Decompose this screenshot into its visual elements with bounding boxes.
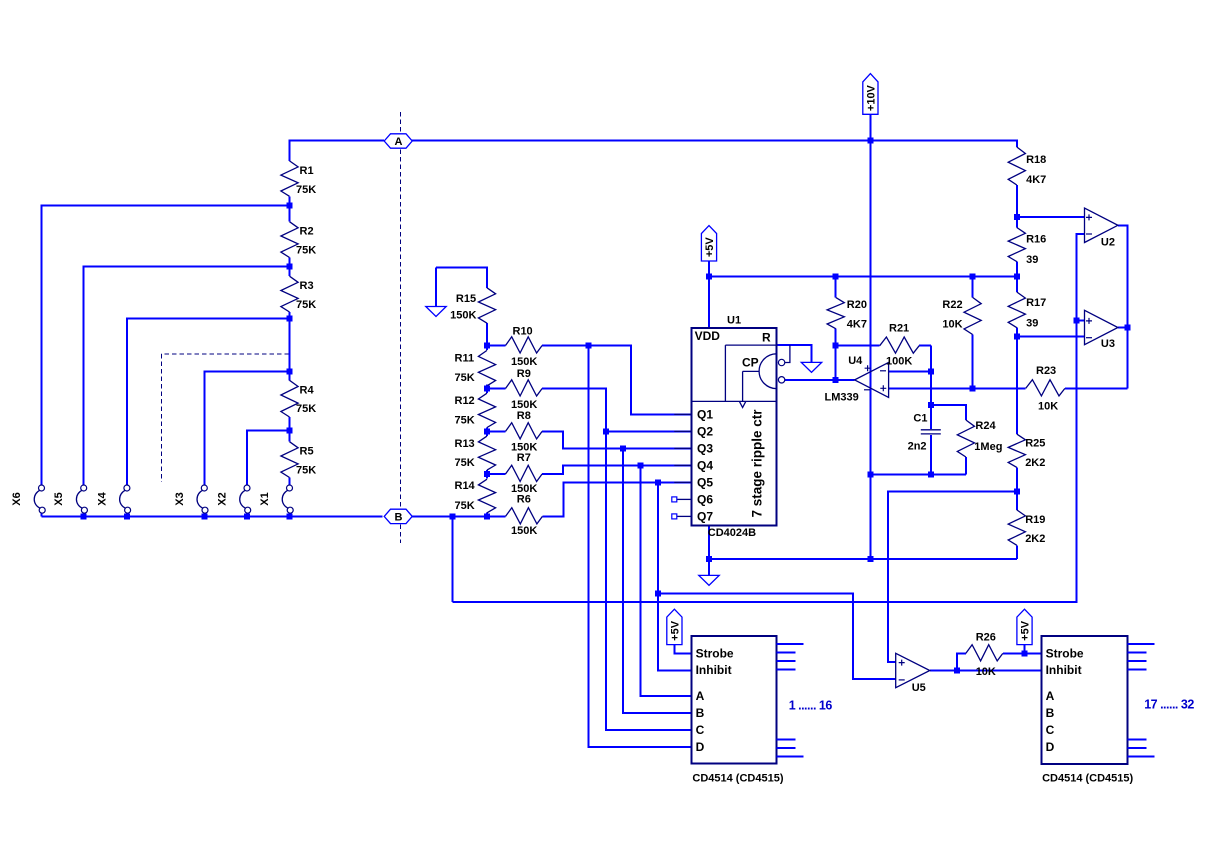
svg-text:Q7: Q7 xyxy=(697,510,713,524)
svg-text:X3: X3 xyxy=(174,492,186,505)
svg-text:R7: R7 xyxy=(517,452,531,464)
svg-text:R26: R26 xyxy=(976,631,996,643)
svg-text:39: 39 xyxy=(1026,254,1038,266)
svg-text:75K: 75K xyxy=(455,500,475,512)
svg-text:R18: R18 xyxy=(1026,154,1046,166)
svg-text:D: D xyxy=(696,740,705,754)
svg-text:D: D xyxy=(1046,740,1055,754)
svg-text:X5: X5 xyxy=(53,492,65,505)
svg-text:U5: U5 xyxy=(912,682,926,694)
svg-text:Q3: Q3 xyxy=(697,442,713,456)
svg-text:Q5: Q5 xyxy=(697,476,713,490)
svg-text:C: C xyxy=(1046,723,1055,737)
svg-text:U2: U2 xyxy=(1101,237,1115,249)
svg-text:1Meg: 1Meg xyxy=(974,441,1002,453)
svg-text:10K: 10K xyxy=(976,666,996,678)
svg-text:+5V: +5V xyxy=(669,620,681,641)
svg-text:X2: X2 xyxy=(217,492,229,505)
svg-text:LM339: LM339 xyxy=(825,392,859,404)
svg-text:+5V: +5V xyxy=(1020,620,1032,641)
svg-text:R9: R9 xyxy=(517,368,531,380)
svg-text:100K: 100K xyxy=(886,356,912,368)
svg-text:75K: 75K xyxy=(296,465,316,477)
svg-text:R1: R1 xyxy=(300,165,314,177)
svg-text:Q1: Q1 xyxy=(697,408,713,422)
svg-text:CD4024B: CD4024B xyxy=(708,527,756,539)
svg-text:X1: X1 xyxy=(259,492,271,505)
svg-text:X6: X6 xyxy=(11,492,23,505)
svg-text:75K: 75K xyxy=(296,245,316,257)
svg-text:B: B xyxy=(1046,706,1055,720)
svg-text:U3: U3 xyxy=(1101,338,1115,350)
svg-text:R21: R21 xyxy=(889,322,909,334)
svg-text:R5: R5 xyxy=(300,446,314,458)
svg-text:R12: R12 xyxy=(455,395,475,407)
svg-text:2K2: 2K2 xyxy=(1025,533,1045,545)
svg-text:U1: U1 xyxy=(727,315,741,327)
svg-text:A: A xyxy=(696,689,705,703)
svg-text:B: B xyxy=(696,706,705,720)
svg-text:150K: 150K xyxy=(450,309,476,321)
svg-text:+5V: +5V xyxy=(704,237,716,258)
svg-text:Q4: Q4 xyxy=(697,459,713,473)
svg-text:4K7: 4K7 xyxy=(847,319,867,331)
svg-text:150K: 150K xyxy=(511,356,537,368)
svg-text:4K7: 4K7 xyxy=(1026,174,1046,186)
svg-text:R25: R25 xyxy=(1025,438,1045,450)
svg-text:10K: 10K xyxy=(1038,401,1058,413)
svg-text:75K: 75K xyxy=(296,403,316,415)
svg-text:CD4514 (CD4515): CD4514 (CD4515) xyxy=(1042,773,1133,785)
svg-text:10K: 10K xyxy=(942,319,962,331)
svg-text:CD4514 (CD4515): CD4514 (CD4515) xyxy=(692,773,783,785)
svg-text:7 stage ripple ctr: 7 stage ripple ctr xyxy=(750,409,765,518)
svg-text:R20: R20 xyxy=(847,299,867,311)
svg-text:R13: R13 xyxy=(455,438,475,450)
svg-text:C: C xyxy=(696,723,705,737)
svg-text:75K: 75K xyxy=(455,372,475,384)
svg-text:A: A xyxy=(1046,689,1055,703)
svg-text:75K: 75K xyxy=(455,457,475,469)
svg-text:R10: R10 xyxy=(513,325,533,337)
svg-text:R14: R14 xyxy=(455,480,476,492)
svg-text:2n2: 2n2 xyxy=(908,440,927,452)
svg-text:75K: 75K xyxy=(455,415,475,427)
svg-text:R2: R2 xyxy=(300,226,314,238)
svg-text:75K: 75K xyxy=(296,299,316,311)
svg-text:Strobe: Strobe xyxy=(1046,647,1084,661)
svg-text:B: B xyxy=(395,511,403,523)
svg-text:X4: X4 xyxy=(96,491,108,505)
svg-text:R3: R3 xyxy=(300,280,314,292)
svg-text:Inhibit: Inhibit xyxy=(696,663,732,677)
svg-text:A: A xyxy=(395,136,403,148)
svg-text:R8: R8 xyxy=(517,410,531,422)
svg-text:1 ...... 16: 1 ...... 16 xyxy=(789,699,833,713)
svg-text:+10V: +10V xyxy=(865,84,877,111)
svg-text:Inhibit: Inhibit xyxy=(1046,663,1082,677)
svg-text:U4: U4 xyxy=(848,355,863,367)
svg-text:CP: CP xyxy=(742,356,759,370)
svg-text:R: R xyxy=(762,331,771,345)
svg-text:C1: C1 xyxy=(913,413,927,425)
svg-text:2K2: 2K2 xyxy=(1025,457,1045,469)
svg-text:150K: 150K xyxy=(511,525,537,537)
svg-text:R23: R23 xyxy=(1036,365,1056,377)
svg-text:VDD: VDD xyxy=(695,329,721,343)
svg-text:R24: R24 xyxy=(975,420,996,432)
svg-text:R16: R16 xyxy=(1026,234,1046,246)
svg-text:R17: R17 xyxy=(1026,297,1046,309)
svg-text:R22: R22 xyxy=(942,299,962,311)
svg-text:17 ...... 32: 17 ...... 32 xyxy=(1144,698,1194,712)
svg-text:R4: R4 xyxy=(300,384,315,396)
svg-text:R11: R11 xyxy=(455,353,475,365)
svg-text:R15: R15 xyxy=(456,293,476,305)
svg-text:39: 39 xyxy=(1026,318,1038,330)
svg-text:75K: 75K xyxy=(296,184,316,196)
svg-text:Strobe: Strobe xyxy=(696,647,734,661)
svg-text:R19: R19 xyxy=(1025,514,1045,526)
svg-text:R6: R6 xyxy=(517,494,531,506)
svg-text:Q2: Q2 xyxy=(697,425,713,439)
svg-text:Q6: Q6 xyxy=(697,493,713,507)
